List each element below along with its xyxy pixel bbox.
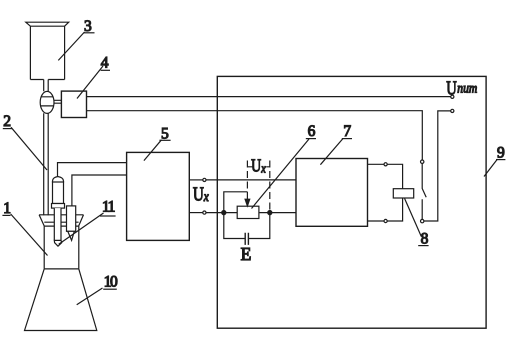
- label Ux upper: [251, 156, 266, 176]
- svg-text:1: 1: [3, 200, 11, 217]
- svg-text:пит: пит: [457, 80, 477, 95]
- svg-text:x: x: [261, 161, 266, 176]
- wire Ux upper to box 7: [206, 179, 296, 181]
- terminal U pit 1: [451, 95, 454, 98]
- svg-text:6: 6: [308, 123, 316, 140]
- box 4 valve driver: [61, 91, 86, 117]
- label 2: [3, 113, 47, 170]
- wire electrode 1 to box 5: [58, 163, 127, 178]
- capacitor E: [245, 233, 248, 245]
- svg-text:E: E: [241, 244, 252, 264]
- box 7 output terminal lower: [368, 219, 388, 222]
- link valve to box 4: [54, 100, 62, 103]
- relay coil 8: [393, 189, 413, 198]
- electrode 1: [52, 177, 65, 247]
- label 6: [252, 123, 317, 209]
- flask 10 body: [25, 226, 97, 330]
- box 5 output terminal upper: [189, 178, 206, 181]
- wire supply top: [87, 96, 451, 98]
- reservoir vessel 3: [26, 22, 69, 79]
- svg-text:10: 10: [104, 274, 118, 291]
- box 7 output terminal upper: [368, 163, 388, 166]
- label 4: [77, 54, 110, 98]
- box 7 amplifier: [296, 159, 368, 227]
- svg-text:x: x: [203, 190, 209, 205]
- label 7: [320, 123, 352, 165]
- switch blade: [422, 164, 426, 220]
- dropper valve body: [40, 91, 54, 113]
- svg-text:4: 4: [101, 54, 109, 71]
- svg-text:11: 11: [102, 198, 115, 215]
- label U pit: [446, 77, 477, 99]
- wire potentiometer to box 7: [259, 212, 296, 214]
- terminal U pit 2: [451, 109, 454, 112]
- label 5: [144, 125, 171, 160]
- svg-text:U: U: [251, 156, 261, 176]
- svg-text:9: 9: [497, 144, 505, 161]
- switch 8 top contact: [421, 160, 424, 163]
- electrode 11: [67, 206, 76, 240]
- tube 2 upper segment: [44, 80, 49, 92]
- label 11: [59, 198, 116, 244]
- outer box 9: [217, 76, 486, 328]
- potentiometer 6: [237, 192, 259, 219]
- label 1: [2, 200, 47, 256]
- wire electrode 11 to box 5: [72, 175, 127, 206]
- wire Ux lower to potentiometer: [206, 212, 237, 214]
- svg-text:U: U: [446, 77, 457, 99]
- label 3: [58, 18, 94, 60]
- label 8: [405, 199, 429, 248]
- box 5 converter: [127, 152, 190, 240]
- dashed measure line right: [269, 161, 271, 213]
- box 5 output terminal lower: [189, 211, 206, 214]
- label 9: [484, 144, 505, 176]
- svg-text:U: U: [193, 183, 204, 205]
- ticks Ux upper: [247, 166, 269, 168]
- node junction right: [268, 211, 272, 215]
- node junction left: [222, 211, 226, 215]
- label Ux left: [193, 183, 210, 205]
- dashed measure line left: [246, 161, 248, 192]
- flask stopper: [39, 215, 83, 226]
- capacitor loop wire: [224, 192, 270, 239]
- tube 2 lower segment: [44, 113, 49, 215]
- wire from terminal 2 to switch bottom: [424, 111, 451, 221]
- svg-text:7: 7: [343, 123, 351, 140]
- switch 8 bottom contact: [421, 219, 424, 222]
- label 10: [77, 274, 118, 305]
- svg-text:2: 2: [3, 113, 11, 130]
- wire supply to switch: [87, 111, 423, 160]
- wire to relay coil: [387, 164, 402, 221]
